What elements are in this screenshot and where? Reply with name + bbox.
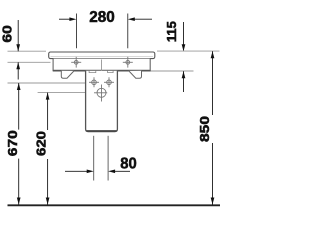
floor line xyxy=(8,204,221,206)
right mounting bracket xyxy=(129,71,142,78)
dimension 850 xyxy=(212,51,214,115)
svg-text:850: 850 xyxy=(197,116,212,142)
extension line 620 (drain) xyxy=(38,92,97,94)
centerline xyxy=(101,60,103,78)
dimension 80 arrows xyxy=(65,170,90,172)
dimension 280 xyxy=(59,14,152,49)
svg-text:280: 280 xyxy=(89,9,115,26)
svg-text:620: 620 xyxy=(34,131,49,156)
plate notch right xyxy=(108,71,114,73)
plate notch left xyxy=(89,71,96,73)
svg-text:670: 670 xyxy=(5,130,20,156)
left mounting bracket xyxy=(61,71,74,78)
extension line 850 top (rim top, right) xyxy=(157,50,220,52)
fixing crosshair right on body xyxy=(123,57,133,68)
extension line 60 bottom xyxy=(8,61,51,63)
dimension 115 xyxy=(183,22,185,50)
washbasin rim slab xyxy=(49,52,155,59)
rim inner line xyxy=(51,56,154,58)
fixing crosshair left on body xyxy=(71,57,81,68)
dimension 670 xyxy=(18,83,20,130)
body bottom line xyxy=(53,70,151,72)
extension line 670 (fixing holes) xyxy=(8,82,90,84)
basin body xyxy=(53,59,150,71)
svg-text:60: 60 xyxy=(0,25,14,43)
bolt hole right xyxy=(104,77,114,87)
drain hole xyxy=(94,85,107,102)
bolt hole left xyxy=(89,77,99,87)
extension line 60 top (rim top, left) xyxy=(8,50,47,52)
dimension 80 extension lines xyxy=(93,136,95,181)
svg-text:115: 115 xyxy=(164,21,179,42)
svg-text:80: 80 xyxy=(120,156,137,173)
siphon column xyxy=(86,71,118,132)
dimension 620 xyxy=(47,93,49,130)
dimension 60 xyxy=(17,20,19,51)
column bottom shading xyxy=(87,130,117,132)
extension line 115 bottom xyxy=(150,70,194,72)
